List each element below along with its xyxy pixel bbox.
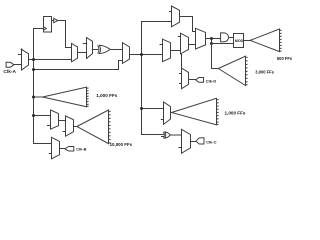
svg-text:1,000 FFs: 1,000 FFs [225, 110, 246, 115]
mux M1 [18, 49, 29, 71]
buffer tree T500 [250, 29, 282, 52]
svg-text:Clk-C: Clk-C [206, 139, 217, 144]
node J2 [210, 42, 213, 45]
node bus1-70 [32, 68, 35, 71]
svg-text:Clk-B: Clk-B [76, 147, 87, 152]
wire mux2 to mux3 [78, 52, 87, 54]
buffer tree T1000L [43, 87, 89, 107]
mux M10 [47, 110, 59, 129]
buffer tree T1000R [172, 98, 219, 125]
node bus1-97 [32, 96, 35, 99]
svg-text:10,000 FFs: 10,000 FFs [110, 142, 133, 147]
buffer tree T3000 [218, 56, 247, 85]
mux M2 [72, 43, 78, 61]
wire mux9 to ClkD pad [189, 79, 196, 81]
wire mux12 to ClkB pad [60, 148, 65, 150]
wire bus2 vertical [142, 22, 172, 135]
flip-flop FF1 [44, 17, 52, 33]
wire rail to mux M10 [34, 115, 51, 117]
node bus2-108 [140, 107, 143, 110]
node bus1-115 [32, 114, 35, 117]
clock pad Clk-A [6, 62, 21, 67]
mux M8 [196, 28, 206, 49]
wire AND to MOD [229, 37, 234, 39]
wire mux11 to T10000 [74, 126, 77, 128]
wire mux14 to ClkC pad [191, 141, 197, 143]
mux M12 ClkB [49, 137, 60, 159]
wire J2 rail to MOD [212, 43, 234, 45]
node bus1-59 [32, 58, 35, 61]
divider box MOD [234, 34, 244, 48]
wire mux8 out to AND [206, 38, 221, 40]
and gate A1 [221, 33, 229, 42]
node bus2-54 [140, 53, 143, 56]
mux M3 [83, 38, 93, 59]
wire mux7 to mux8 [189, 44, 196, 46]
wire rail y70 to mux M4 [34, 61, 123, 70]
wire mux13 to T1000R [171, 112, 172, 114]
wire bus1 vertical [34, 29, 52, 144]
svg-text:3,000 FFs: 3,000 FFs [255, 70, 274, 75]
node J1 [210, 37, 213, 40]
mux M11 [63, 116, 74, 136]
mux M13 [161, 102, 171, 125]
wire xor2 to mux14 [170, 134, 181, 136]
wire J1-J2 and down to T3000 [212, 39, 219, 69]
clock pad Clk-B [65, 147, 74, 152]
xor gate X1 [98, 45, 111, 53]
svg-text:500 FFs: 500 FFs [277, 56, 293, 61]
mux M9 ClkD [179, 68, 189, 89]
wire rail to mux13 [142, 108, 164, 110]
xor gate X2 [161, 132, 170, 138]
svg-text:Clk-D: Clk-D [206, 79, 217, 84]
buffer tree T10000 [77, 110, 111, 144]
buffer B1 (FF output) [52, 18, 58, 22]
wire mux5 to mux8 [180, 17, 196, 32]
wire FF loop to mux M2 [58, 21, 72, 48]
mux M7 [178, 33, 189, 54]
wire xor to mux4 [110, 49, 122, 51]
svg-text:Clk-A: Clk-A [3, 69, 16, 75]
wire MOD to T500 [244, 40, 251, 42]
wire rail mux1 out to mux2 [29, 59, 72, 61]
wire mux3 to xor [93, 49, 99, 51]
wire mux7 down to mux9 [181, 54, 183, 68]
wire mux6 to mux7 [171, 50, 181, 52]
svg-text:1,000 FFs: 1,000 FFs [96, 93, 117, 98]
clock pad Clk-C [196, 138, 204, 144]
mux M6 [160, 39, 171, 61]
clock pad Clk-D [196, 78, 204, 83]
wire rail to buffer T1 [34, 96, 43, 98]
wire mux10 to mux11 [59, 120, 66, 122]
svg-text:MOD: MOD [235, 39, 244, 43]
mux M14 ClkC [179, 129, 191, 153]
mux M4 [123, 43, 130, 64]
mux M5 top [169, 6, 180, 27]
wire mux4 out rail to mux6 [130, 54, 163, 56]
